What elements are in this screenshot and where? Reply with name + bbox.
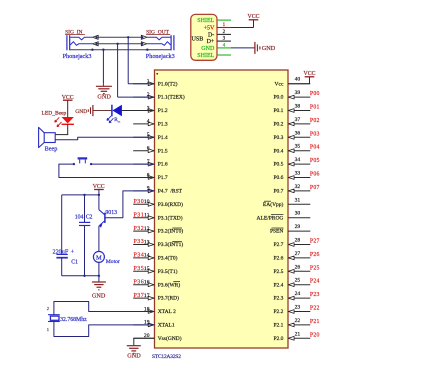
svg-text:D+: D+	[207, 39, 215, 45]
svg-text:P0.3: P0.3	[273, 135, 283, 141]
svg-text:P2.6: P2.6	[273, 256, 283, 262]
wire base to pin9	[105, 191, 155, 218]
wire sleeve to ground	[102, 50, 104, 83]
svg-text:31: 31	[295, 197, 301, 203]
svg-text:17: 17	[144, 293, 150, 299]
svg-text:P3.0(RXD): P3.0(RXD)	[158, 201, 183, 208]
svg-text:P2.0: P2.0	[273, 336, 283, 342]
J1 ring contact	[70, 42, 92, 46]
ground at phonejacks	[102, 83, 104, 86]
LED D2 blue	[111, 105, 113, 117]
svg-text:P2.5: P2.5	[273, 269, 283, 275]
svg-text:23: 23	[295, 305, 301, 311]
U1 pin leads left	[133, 83, 154, 85]
LED D1 red	[62, 117, 74, 123]
svg-text:27: 27	[295, 251, 301, 257]
junction dots jack rows	[95, 36, 97, 38]
J2 ring contact	[147, 42, 170, 46]
svg-text:P26: P26	[310, 252, 320, 258]
wire tip row	[98, 36, 141, 38]
power VCC at pin 40	[288, 83, 310, 85]
wire crystal to XTAL1	[54, 322, 155, 337]
wire button to pin8	[59, 164, 155, 177]
svg-text:M: M	[96, 254, 102, 261]
svg-text:35: 35	[295, 144, 301, 150]
svg-text:220uF: 220uF	[52, 249, 68, 256]
USB pin leads	[217, 19, 231, 21]
svg-text:C2: C2	[86, 215, 93, 221]
svg-text:12: 12	[144, 226, 150, 232]
svg-text:P0.2: P0.2	[273, 122, 283, 128]
svg-text:P2.4: P2.4	[273, 282, 283, 288]
svg-text:37: 37	[295, 117, 301, 123]
svg-text:SHIEL: SHIEL	[197, 18, 214, 24]
svg-text:P3.6(WR): P3.6(WR)	[158, 281, 181, 288]
svg-text:4: 4	[147, 119, 150, 125]
crystal Y1 32.768Mhz	[48, 314, 60, 316]
wire ring to pin2	[117, 44, 119, 97]
svg-text:P3.5(T1): P3.5(T1)	[158, 268, 178, 275]
power GND bars at USB	[254, 42, 256, 54]
svg-text:P2.2: P2.2	[273, 309, 283, 315]
wire beeper to pin5	[55, 137, 154, 140]
svg-text:GND: GND	[92, 293, 106, 300]
svg-text:P3.7(RD): P3.7(RD)	[158, 295, 179, 302]
beeper LS1	[44, 133, 55, 143]
svg-text:P3.1(TXD): P3.1(TXD)	[158, 214, 183, 221]
svg-text:Phonejack3: Phonejack3	[63, 53, 92, 60]
svg-text:1: 1	[47, 327, 49, 332]
svg-text:26: 26	[295, 264, 301, 270]
LED D1 emission arrows	[55, 117, 60, 122]
svg-text:P05: P05	[310, 158, 320, 164]
svg-text:15: 15	[144, 266, 150, 272]
svg-text:14: 14	[144, 253, 150, 259]
J1 tip contact	[70, 37, 92, 40]
push button S1	[78, 157, 88, 159]
power VCC at USB	[249, 19, 259, 21]
svg-text:P1.0(T2): P1.0(T2)	[158, 80, 178, 87]
svg-text:C1: C1	[71, 260, 78, 266]
svg-text:P1.4: P1.4	[158, 135, 168, 141]
wire LED D2 to pin3	[122, 110, 155, 112]
svg-text:Phonejack3: Phonejack3	[146, 53, 175, 60]
svg-text:+5V: +5V	[204, 25, 215, 31]
svg-text:11: 11	[144, 213, 150, 219]
wire emitter to motor	[98, 226, 100, 252]
svg-text:P20: P20	[310, 332, 320, 338]
phonejack J1 SIG_IN barrel	[66, 35, 68, 50]
svg-text:P0.6: P0.6	[273, 175, 283, 181]
svg-text:P24: P24	[310, 279, 320, 285]
svg-text:ALE/PROG: ALE/PROG	[257, 215, 284, 221]
svg-text:P3.2(INT0): P3.2(INT0)	[158, 228, 184, 235]
svg-text:P0.4: P0.4	[273, 148, 283, 154]
svg-text:Beep: Beep	[45, 146, 58, 153]
svg-text:P23: P23	[310, 292, 320, 298]
svg-text:P00: P00	[310, 91, 320, 97]
svg-text:P1.5: P1.5	[158, 148, 168, 154]
U1 pin leads right	[288, 83, 310, 85]
svg-text:GND: GND	[201, 46, 215, 52]
svg-text:P32: P32	[134, 226, 145, 232]
svg-text:P1.1(T2EX): P1.1(T2EX)	[158, 94, 185, 101]
capacitor C2 104	[84, 195, 86, 222]
svg-text:P3.3(INT1): P3.3(INT1)	[158, 241, 184, 248]
svg-text:25: 25	[295, 278, 301, 284]
svg-text:29: 29	[295, 224, 301, 230]
svg-text:P34: P34	[134, 253, 145, 259]
svg-text:GND: GND	[75, 109, 87, 115]
svg-text:39: 39	[295, 90, 301, 96]
svg-text:28: 28	[295, 238, 301, 244]
ground at pin 20	[134, 337, 155, 339]
svg-text:Vcc: Vcc	[275, 81, 284, 87]
svg-text:EA(Vpp): EA(Vpp)	[263, 201, 284, 208]
svg-text:33: 33	[295, 171, 301, 177]
svg-text:XTAL 2: XTAL 2	[158, 309, 176, 315]
svg-text:P3.4(T0): P3.4(T0)	[158, 255, 178, 262]
svg-text:32: 32	[295, 184, 301, 190]
svg-text:XTAL1: XTAL1	[158, 323, 175, 329]
svg-text:P07: P07	[310, 185, 320, 191]
svg-text:P21: P21	[310, 319, 320, 325]
svg-text:P31: P31	[134, 212, 145, 218]
svg-text:P4.7 /RST: P4.7 /RST	[158, 189, 183, 195]
wire USB GND	[231, 47, 255, 49]
svg-text:24: 24	[295, 291, 301, 297]
svg-text:P36: P36	[134, 279, 145, 285]
svg-text:P06: P06	[310, 172, 320, 178]
wire button to pin7	[91, 163, 154, 165]
svg-text:104: 104	[75, 215, 84, 221]
svg-text:P2.3: P2.3	[273, 296, 283, 302]
phonejack J2 SIG_OUT barrel	[170, 35, 172, 50]
transistor Q1 9013	[104, 213, 106, 223]
svg-text:P1.2: P1.2	[158, 108, 168, 114]
svg-text:SHIEL: SHIEL	[197, 53, 214, 59]
svg-text:P04: P04	[310, 145, 320, 151]
wire ring row	[98, 43, 141, 45]
svg-text:PSEN: PSEN	[270, 229, 283, 235]
svg-text:P0.1: P0.1	[273, 108, 283, 114]
svg-text:P1.7: P1.7	[158, 175, 168, 181]
svg-text:P02: P02	[310, 118, 320, 124]
svg-text:2: 2	[47, 306, 49, 311]
svg-text:P37: P37	[134, 293, 145, 299]
wire motor to ground node	[98, 262, 100, 275]
svg-text:P1.6: P1.6	[158, 162, 168, 168]
LED D2 emission arrows	[107, 116, 111, 121]
MCU U1 STC12A32S2 body	[155, 70, 289, 348]
svg-text:GND: GND	[127, 352, 141, 359]
ground at motor	[98, 276, 100, 282]
svg-text:13: 13	[144, 239, 150, 245]
svg-text:6: 6	[147, 146, 150, 152]
svg-text:P0.0: P0.0	[273, 95, 283, 101]
svg-text:LED_Beep: LED_Beep	[42, 111, 67, 117]
wire tip to pin1	[127, 37, 129, 83]
overlines on active-low pin names	[172, 227, 182, 229]
svg-text:21: 21	[295, 331, 301, 337]
svg-text:P35: P35	[134, 266, 145, 272]
svg-text:34: 34	[295, 157, 301, 163]
svg-text:+: +	[71, 248, 75, 255]
U1 pin arrow glyphs	[148, 82, 154, 86]
svg-text:40: 40	[295, 77, 301, 83]
svg-text:10: 10	[144, 199, 150, 205]
U1 left pin names	[158, 80, 185, 342]
svg-text:P1.3: P1.3	[158, 122, 168, 128]
svg-text:P03: P03	[310, 131, 320, 137]
svg-text:D-: D-	[208, 32, 214, 38]
svg-text:16: 16	[144, 280, 150, 286]
svg-text:P2.1: P2.1	[273, 323, 283, 329]
svg-text:30: 30	[295, 211, 301, 217]
svg-text:P22: P22	[310, 306, 320, 312]
USB connector J3 body	[191, 14, 217, 60]
svg-text:GND: GND	[97, 93, 111, 100]
svg-text:P33: P33	[134, 239, 145, 245]
svg-text:P0.7: P0.7	[273, 189, 283, 195]
wire top supply node	[62, 194, 99, 196]
svg-text:Motor: Motor	[106, 259, 120, 265]
wire crystal to XTAL2	[54, 302, 155, 315]
svg-text:22: 22	[295, 318, 301, 324]
svg-text:36: 36	[295, 130, 301, 136]
svg-text:VCC: VCC	[248, 14, 260, 20]
svg-text:GND: GND	[262, 45, 276, 52]
svg-text:VCC: VCC	[304, 71, 316, 77]
wire bottom ground node	[62, 275, 99, 277]
wire gnd to LED D2	[94, 110, 112, 112]
J2 tip contact	[147, 37, 170, 40]
svg-text:STC12A32S2: STC12A32S2	[152, 354, 181, 360]
capacitor C1 220uF	[61, 195, 63, 254]
svg-text:P0.5: P0.5	[273, 162, 283, 168]
svg-text:38: 38	[295, 104, 301, 110]
svg-text:Vss(GND): Vss(GND)	[158, 335, 182, 342]
svg-text:P30: P30	[134, 199, 145, 205]
wire +5V to VCC	[231, 27, 254, 29]
wire LED to beeper	[67, 124, 69, 134]
motor M1	[93, 251, 104, 262]
wire sleeve row	[70, 49, 171, 51]
svg-text:P27: P27	[310, 239, 320, 245]
svg-text:P25: P25	[310, 265, 320, 271]
svg-text:P01: P01	[310, 105, 320, 111]
svg-text:9013: 9013	[105, 210, 117, 216]
svg-text:32.768Mhz: 32.768Mhz	[60, 317, 87, 323]
svg-text:P2.7: P2.7	[273, 242, 283, 248]
svg-text:USB: USB	[192, 36, 204, 42]
